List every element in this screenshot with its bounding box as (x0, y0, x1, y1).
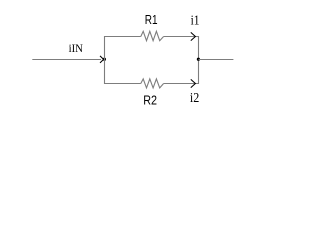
svg-text:R1: R1 (145, 12, 158, 27)
svg-text:i1: i1 (191, 13, 200, 28)
wire output right (199, 59, 234, 61)
svg-text:iIN: iIN (69, 43, 84, 55)
svg-text:i2: i2 (190, 90, 199, 105)
wire input left (32, 59, 101, 61)
wire bottom branch right segment (164, 83, 199, 85)
wire bottom branch left segment (104, 83, 141, 85)
resistor R2 (141, 79, 164, 88)
wire top branch left segment (104, 36, 141, 38)
arrowhead i2 (191, 79, 196, 87)
resistor R1 (141, 31, 164, 40)
wire top branch right segment (164, 36, 199, 38)
arrowhead iIN (100, 56, 104, 63)
wire left vertical (104, 36, 106, 84)
arrowhead i1 (191, 32, 196, 40)
node right junction (197, 58, 200, 61)
svg-text:R2: R2 (143, 93, 157, 108)
node left junction (103, 58, 106, 61)
wire right vertical (198, 36, 200, 84)
